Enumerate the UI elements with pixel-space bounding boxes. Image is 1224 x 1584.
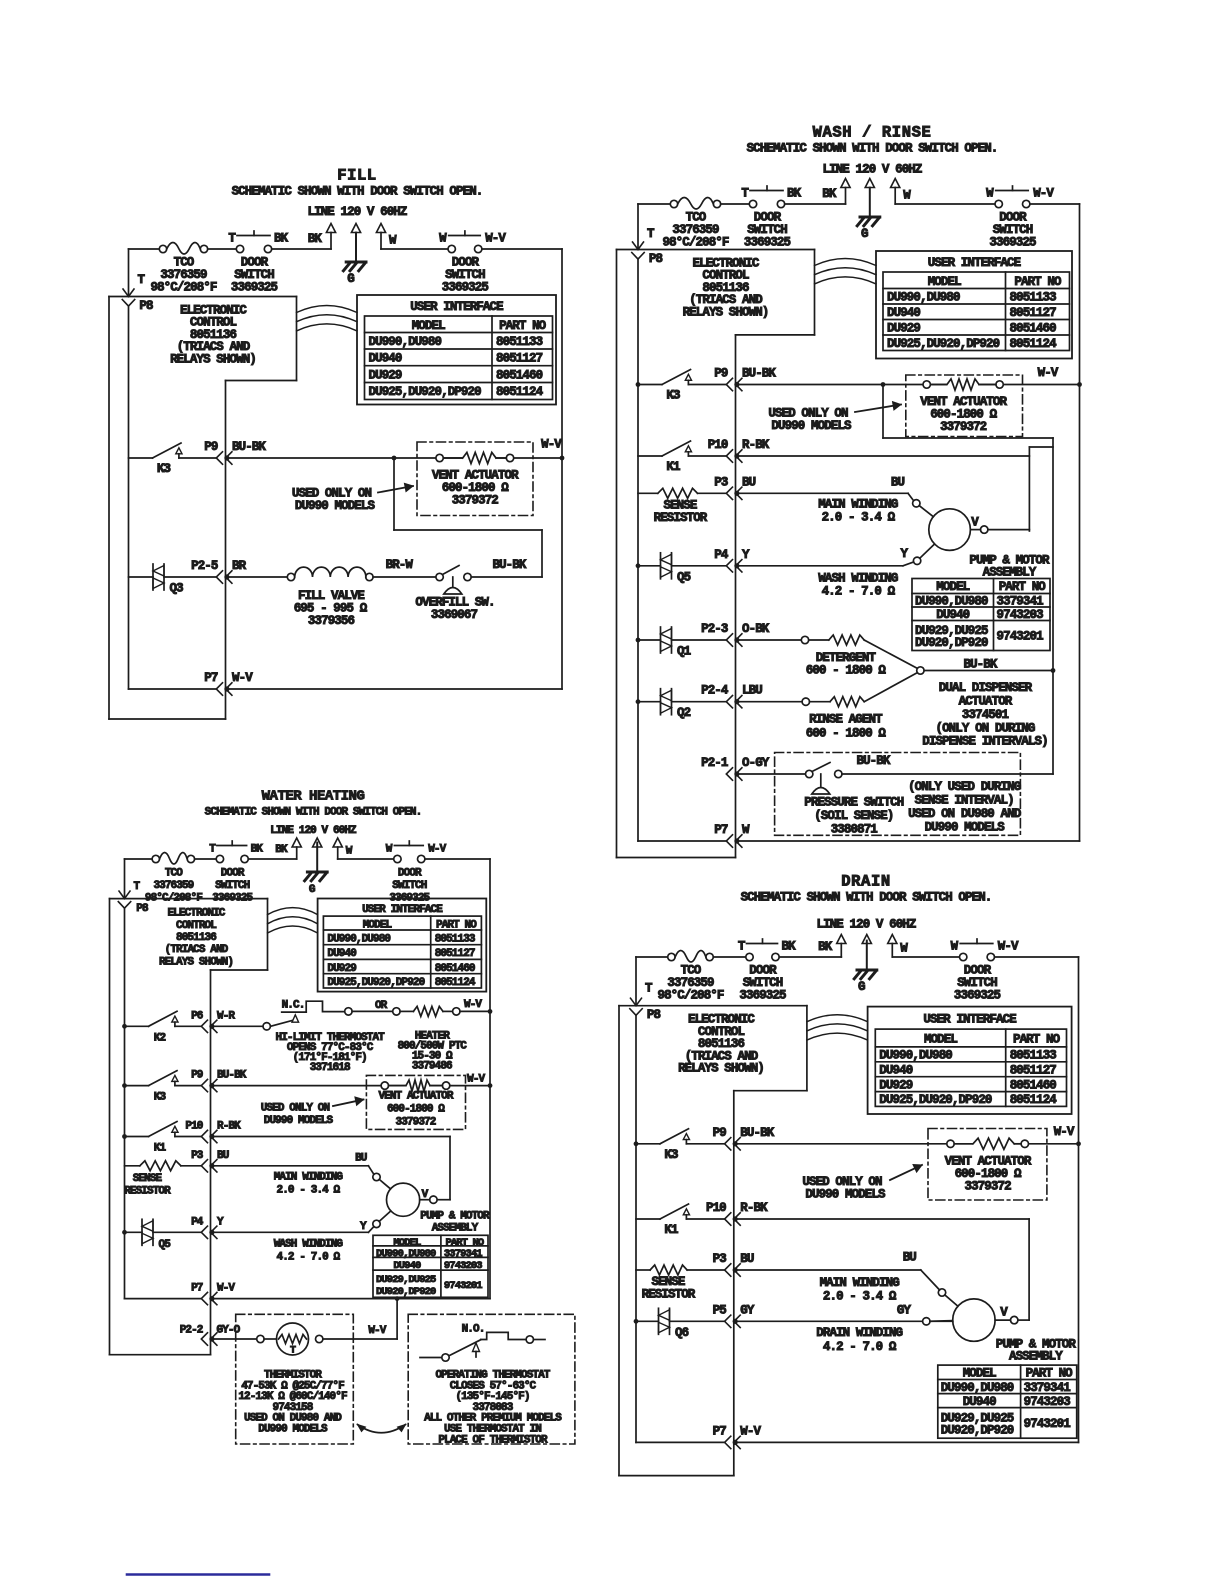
svg-text:BR: BR [232,559,247,573]
svg-text:WASH / RINSE: WASH / RINSE [813,124,932,142]
svg-text:Q5: Q5 [677,570,691,584]
svg-text:O-GY: O-GY [742,756,770,770]
svg-text:8051460: 8051460 [435,963,475,975]
svg-text:SCHEMATIC SHOWN WITH DOOR SWIT: SCHEMATIC SHOWN WITH DOOR SWITCH OPEN. [741,891,992,905]
svg-text:P10: P10 [185,1121,202,1133]
svg-text:BR-W: BR-W [386,558,414,572]
svg-text:P3: P3 [191,1150,204,1162]
svg-text:SWITCH: SWITCH [392,880,427,892]
svg-text:3379372: 3379372 [452,494,499,508]
svg-text:SCHEMATIC SHOWN WITH DOOR SWIT: SCHEMATIC SHOWN WITH DOOR SWITCH OPEN. [747,142,998,156]
svg-text:P4: P4 [714,548,729,562]
svg-text:R-BK: R-BK [740,1201,768,1215]
svg-text:K3: K3 [157,462,171,476]
svg-text:LBU: LBU [742,684,762,698]
svg-text:98°C/208°F: 98°C/208°F [150,281,216,295]
svg-text:DU990,DU980: DU990,DU980 [327,934,390,946]
svg-text:DU925,DU920,DP920: DU925,DU920,DP920 [879,1093,992,1107]
svg-text:9743201: 9743201 [1024,1417,1071,1431]
svg-text:3376359: 3376359 [153,880,193,892]
svg-text:600 - 1800 Ω: 600 - 1800 Ω [806,664,887,678]
svg-text:VENT ACTUATOR: VENT ACTUATOR [378,1091,453,1103]
svg-text:9743201: 9743201 [997,630,1044,644]
svg-text:DU990,DU980: DU990,DU980 [376,1248,436,1260]
svg-text:BK: BK [822,187,837,201]
svg-text:3369325: 3369325 [739,989,786,1003]
svg-text:3369325: 3369325 [442,281,489,295]
svg-text:GY: GY [897,1303,912,1317]
svg-text:3379341: 3379341 [1024,1381,1071,1395]
svg-text:BU-BK: BU-BK [740,1126,774,1140]
svg-text:MODEL: MODEL [928,275,961,289]
svg-text:P2-2: P2-2 [180,1324,203,1336]
svg-text:K1: K1 [664,1223,678,1237]
svg-text:P2-4: P2-4 [701,684,729,698]
svg-text:USER INTERFACE: USER INTERFACE [410,300,503,314]
svg-text:4.2 - 7.0 Ω: 4.2 - 7.0 Ω [822,584,896,598]
svg-text:P8: P8 [647,1008,661,1022]
svg-text:PART NO: PART NO [1014,275,1062,289]
svg-text:RESISTOR: RESISTOR [642,1288,696,1302]
svg-text:LINE 120 V 60HZ: LINE 120 V 60HZ [270,825,357,837]
svg-text:DU929: DU929 [327,963,356,975]
svg-text:DU929: DU929 [879,1078,912,1092]
svg-text:N.O.: N.O. [462,1323,485,1335]
svg-text:4.2 - 7.0 Ω: 4.2 - 7.0 Ω [823,1340,897,1354]
svg-text:8051124: 8051124 [496,385,544,399]
svg-text:W-R: W-R [217,1010,235,1022]
svg-text:W-V: W-V [217,1283,235,1295]
svg-text:3369325: 3369325 [231,281,278,295]
svg-text:RINSE AGENT: RINSE AGENT [809,712,883,726]
svg-text:P6: P6 [191,1010,203,1022]
svg-text:8051127: 8051127 [496,352,543,366]
svg-text:98°C/208°F: 98°C/208°F [662,236,728,250]
svg-text:DU940: DU940 [327,948,356,960]
svg-text:DU920,DP920: DU920,DP920 [941,1423,1014,1437]
svg-text:WASH WINDING: WASH WINDING [818,571,898,585]
svg-text:8051124: 8051124 [1010,337,1058,351]
svg-text:PART NO: PART NO [1013,1033,1061,1047]
svg-text:3379341: 3379341 [997,595,1044,609]
svg-text:BU-BK: BU-BK [217,1070,247,1082]
svg-text:DU990 MODELS: DU990 MODELS [771,419,852,433]
svg-text:RELAYS SHOWN): RELAYS SHOWN) [170,352,256,366]
svg-text:DISPENSE INTERVALS): DISPENSE INTERVALS) [922,735,1047,749]
svg-text:WASH WINDING: WASH WINDING [274,1238,344,1250]
svg-text:DOOR: DOOR [398,868,422,880]
svg-text:Q1: Q1 [677,645,691,659]
svg-text:3379372: 3379372 [940,420,987,434]
svg-text:4.2 - 7.0 Ω: 4.2 - 7.0 Ω [277,1251,341,1263]
svg-text:K1: K1 [666,460,680,474]
svg-text:BU: BU [355,1153,367,1165]
svg-text:(SOIL SENSE): (SOIL SENSE) [814,809,893,823]
svg-text:RESISTOR: RESISTOR [124,1185,171,1197]
svg-text:DU940: DU940 [879,1064,912,1078]
svg-text:(ONLY USED DURING: (ONLY USED DURING [908,780,1021,794]
svg-text:DU940: DU940 [887,306,920,320]
svg-text:RELAYS SHOWN): RELAYS SHOWN) [678,1062,764,1076]
svg-text:P3: P3 [713,1252,727,1266]
svg-text:DU920,DP920: DU920,DP920 [376,1286,436,1298]
svg-text:G: G [347,272,354,286]
svg-text:R-BK: R-BK [217,1121,241,1133]
svg-text:DU929,DU925: DU929,DU925 [376,1274,436,1286]
svg-text:O-BK: O-BK [742,622,770,636]
svg-text:GY-O: GY-O [217,1324,241,1336]
svg-text:BK: BK [787,187,802,201]
svg-text:Q2: Q2 [677,706,691,720]
svg-text:600 - 1800 Ω: 600 - 1800 Ω [806,726,887,740]
svg-text:BU: BU [903,1250,917,1264]
svg-text:8051133: 8051133 [1010,290,1057,304]
svg-text:W-V: W-V [485,232,506,246]
svg-text:W-V: W-V [368,1325,386,1337]
svg-text:W-V: W-V [1054,1125,1075,1139]
svg-text:SENSE INTERVAL): SENSE INTERVAL) [915,793,1014,807]
svg-text:PUMP & MOTOR: PUMP & MOTOR [420,1211,490,1223]
svg-text:PART NO: PART NO [1026,1367,1074,1381]
svg-text:P10: P10 [708,438,728,452]
svg-text:600-1800 Ω: 600-1800 Ω [387,1104,445,1116]
svg-text:(TRIACS AND: (TRIACS AND [165,944,229,956]
svg-text:3369325: 3369325 [954,989,1001,1003]
svg-text:8051124: 8051124 [1010,1093,1058,1107]
svg-text:LINE 120 V 60HZ: LINE 120 V 60HZ [816,918,915,932]
svg-text:3369067: 3369067 [431,608,478,622]
svg-text:DUAL DISPENSER: DUAL DISPENSER [939,681,1033,695]
svg-text:3379486: 3379486 [412,1061,452,1073]
svg-text:WATER HEATING: WATER HEATING [262,789,365,805]
svg-text:2.0 - 3.4 Ω: 2.0 - 3.4 Ω [823,1290,897,1304]
svg-text:BU-BK: BU-BK [963,658,997,672]
svg-text:P10: P10 [706,1201,726,1215]
svg-text:W-V: W-V [998,940,1019,954]
svg-text:8051127: 8051127 [435,948,475,960]
svg-text:ACTUATOR: ACTUATOR [959,695,1013,709]
svg-text:DU940: DU940 [369,352,402,366]
svg-text:LINE 120 V 60HZ: LINE 120 V 60HZ [307,205,406,219]
svg-text:98°C/208°F: 98°C/208°F [657,989,723,1003]
svg-text:W-V: W-V [464,999,482,1011]
svg-text:SCHEMATIC SHOWN WITH DOOR SWIT: SCHEMATIC SHOWN WITH DOOR SWITCH OPEN. [232,185,483,199]
svg-text:DU990,DU980: DU990,DU980 [915,595,988,609]
svg-text:DU925,DU920,DP920: DU925,DU920,DP920 [327,977,424,989]
svg-text:GY: GY [740,1303,755,1317]
svg-text:W-V: W-V [1038,366,1059,380]
svg-text:DU940: DU940 [963,1395,996,1409]
svg-text:USER INTERFACE: USER INTERFACE [928,256,1021,270]
svg-text:P2-1: P2-1 [701,756,728,770]
svg-text:P4: P4 [191,1216,204,1228]
svg-text:W-V: W-V [541,438,562,452]
svg-text:BK: BK [251,844,264,856]
svg-text:ASSEMBLY: ASSEMBLY [1009,1350,1063,1364]
svg-text:8051133: 8051133 [435,934,476,946]
svg-text:ELECTRONIC: ELECTRONIC [167,908,225,920]
svg-text:2.0 - 3.4 Ω: 2.0 - 3.4 Ω [277,1184,341,1196]
svg-text:P5: P5 [713,1303,727,1317]
svg-text:8051460: 8051460 [496,368,543,382]
svg-text:Q5: Q5 [159,1239,172,1251]
svg-text:MODEL: MODEL [363,920,393,932]
svg-text:W-V: W-V [428,844,446,856]
svg-text:P9: P9 [713,1126,727,1140]
svg-text:BU: BU [740,1252,754,1266]
svg-text:G: G [861,227,868,241]
svg-text:PLACE OF THERMISTOR: PLACE OF THERMISTOR [438,1434,548,1446]
svg-text:DU929: DU929 [887,321,920,335]
svg-text:P9: P9 [204,440,218,454]
svg-text:8051136: 8051136 [176,932,216,944]
svg-text:8051127: 8051127 [1010,1064,1057,1078]
svg-text:SCHEMATIC SHOWN WITH DOOR SWIT: SCHEMATIC SHOWN WITH DOOR SWITCH OPEN. [205,807,422,819]
svg-text:3379372: 3379372 [396,1117,436,1129]
svg-text:BU-BK: BU-BK [232,440,266,454]
svg-text:USED ONLY ON: USED ONLY ON [261,1103,330,1115]
svg-text:USER INTERFACE: USER INTERFACE [362,904,443,916]
svg-text:3369325: 3369325 [989,236,1036,250]
svg-text:TCO: TCO [165,868,183,880]
svg-text:3374501: 3374501 [962,708,1009,722]
svg-text:MAIN WINDING: MAIN WINDING [274,1171,344,1183]
svg-text:BK: BK [782,940,797,954]
svg-text:DU990 MODELS: DU990 MODELS [258,1424,328,1436]
svg-text:CONTROL: CONTROL [176,920,217,932]
svg-text:BK: BK [275,844,288,856]
svg-text:8051127: 8051127 [1010,306,1057,320]
svg-text:Q3: Q3 [170,582,184,596]
svg-text:W-V: W-V [467,1074,485,1086]
svg-text:MODEL: MODEL [936,580,969,594]
svg-text:MODEL: MODEL [924,1033,957,1047]
svg-text:9743203: 9743203 [444,1260,482,1272]
svg-text:DU929: DU929 [369,368,402,382]
svg-text:BU: BU [742,475,756,489]
svg-text:PART NO: PART NO [436,920,477,932]
svg-text:(ONLY ON DURING: (ONLY ON DURING [935,721,1034,735]
svg-text:3379341: 3379341 [444,1248,482,1260]
svg-text:K2: K2 [154,1032,166,1044]
svg-text:MAIN WINDING: MAIN WINDING [818,497,898,511]
svg-text:K3: K3 [664,1148,678,1162]
svg-text:BU-BK: BU-BK [742,367,776,381]
svg-text:P7: P7 [713,1424,727,1438]
svg-text:2.0 - 3.4 Ω: 2.0 - 3.4 Ω [822,510,896,524]
svg-text:PART NO: PART NO [999,580,1047,594]
svg-text:SENSE: SENSE [133,1173,163,1185]
svg-text:8051460: 8051460 [1010,321,1057,335]
svg-text:8051124: 8051124 [435,977,476,989]
svg-text:DU990,DU980: DU990,DU980 [879,1049,952,1063]
svg-text:PART NO: PART NO [499,319,547,333]
svg-text:3380871: 3380871 [831,822,878,836]
svg-text:BU-BK: BU-BK [492,558,526,572]
svg-text:3379372: 3379372 [964,1179,1011,1193]
svg-text:DRAIN WINDING: DRAIN WINDING [816,1326,902,1340]
svg-text:DOOR: DOOR [221,868,245,880]
svg-text:SWITCH: SWITCH [215,880,250,892]
svg-text:P9: P9 [191,1070,203,1082]
svg-text:9743203: 9743203 [997,608,1044,622]
svg-text:DU990 MODELS: DU990 MODELS [925,821,1006,835]
svg-text:BU: BU [891,476,905,490]
svg-text:BU-BK: BU-BK [856,754,890,768]
svg-text:MODEL: MODEL [412,319,445,333]
svg-text:3369325: 3369325 [744,236,791,250]
svg-text:W-V: W-V [232,671,253,685]
svg-text:K3: K3 [154,1092,167,1104]
svg-text:8051133: 8051133 [1010,1049,1057,1063]
svg-text:FILL: FILL [337,167,377,185]
svg-text:W-V: W-V [1033,187,1054,201]
svg-text:DU990 MODELS: DU990 MODELS [264,1115,334,1127]
svg-text:K3: K3 [666,389,680,403]
svg-text:DU940: DU940 [936,608,969,622]
svg-text:8051133: 8051133 [496,335,543,349]
svg-text:RELAYS SHOWN): RELAYS SHOWN) [159,956,233,968]
svg-text:K1: K1 [154,1143,167,1155]
svg-text:P9: P9 [714,367,728,381]
svg-text:DU925,DU920,DP920: DU925,DU920,DP920 [369,385,482,399]
svg-text:BK: BK [818,940,833,954]
svg-text:RESISTOR: RESISTOR [654,511,708,525]
svg-text:DU990 MODELS: DU990 MODELS [805,1187,886,1201]
svg-text:BK: BK [308,232,323,246]
svg-text:PRESSURE SWITCH: PRESSURE SWITCH [804,796,903,810]
svg-text:P8: P8 [136,903,149,915]
svg-text:DU990,DU980: DU990,DU980 [887,290,960,304]
svg-text:DRAIN: DRAIN [841,873,891,891]
svg-text:DU920,DP920: DU920,DP920 [915,636,988,650]
svg-text:T: T [290,1346,296,1357]
svg-text:DU925,DU920,DP920: DU925,DU920,DP920 [887,337,1000,351]
svg-text:DU990,DU980: DU990,DU980 [369,335,442,349]
svg-text:DU990 MODELS: DU990 MODELS [295,499,376,513]
svg-text:9743203: 9743203 [1024,1395,1071,1409]
svg-text:8051460: 8051460 [1010,1078,1057,1092]
svg-text:R-BK: R-BK [742,438,770,452]
svg-text:MAIN WINDING: MAIN WINDING [820,1276,900,1290]
svg-text:N.C.: N.C. [282,1000,305,1012]
svg-text:ASSEMBLY: ASSEMBLY [432,1223,479,1235]
svg-text:9743201: 9743201 [444,1280,482,1292]
svg-text:LINE 120 V 60HZ: LINE 120 V 60HZ [822,163,921,177]
svg-text:USED ON DU980 AND: USED ON DU980 AND [908,807,1022,821]
svg-text:P8: P8 [139,299,153,313]
svg-text:W-V: W-V [740,1424,761,1438]
svg-text:ASSEMBLY: ASSEMBLY [983,566,1037,580]
svg-text:P8: P8 [649,252,663,266]
svg-text:BK: BK [274,232,289,246]
svg-text:DU990,DU980: DU990,DU980 [941,1381,1014,1395]
svg-text:BU: BU [217,1150,229,1162]
svg-text:G: G [858,980,865,994]
svg-text:Q6: Q6 [675,1326,689,1340]
svg-text:3371618: 3371618 [310,1062,351,1074]
svg-text:3379356: 3379356 [308,614,355,628]
svg-text:P7: P7 [714,823,728,837]
svg-text:RELAYS SHOWN): RELAYS SHOWN) [683,305,769,319]
svg-text:P2-3: P2-3 [701,622,728,636]
svg-text:P7: P7 [191,1283,203,1295]
svg-text:P2-5: P2-5 [191,559,218,573]
svg-text:DU940: DU940 [393,1260,421,1272]
svg-text:P3: P3 [714,475,728,489]
svg-text:USER INTERFACE: USER INTERFACE [923,1012,1016,1026]
svg-text:P7: P7 [204,671,218,685]
svg-text:OR: OR [375,1000,388,1012]
svg-text:MODEL: MODEL [963,1367,996,1381]
